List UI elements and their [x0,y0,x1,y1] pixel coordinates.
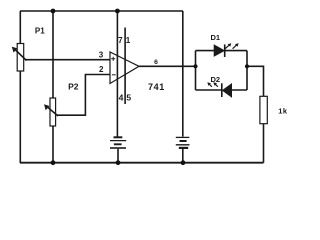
svg-text:P2: P2 [68,82,79,92]
svg-text:5: 5 [126,93,131,103]
svg-text:3: 3 [99,51,104,60]
svg-text:D2: D2 [211,75,221,84]
svg-text:6: 6 [154,59,158,66]
svg-text:1: 1 [126,36,131,45]
svg-text:741: 741 [148,82,165,92]
svg-text:2: 2 [99,65,104,74]
svg-text:4: 4 [119,93,124,103]
svg-text:D1: D1 [211,33,221,42]
svg-text:P1: P1 [35,26,45,35]
svg-text:7: 7 [118,36,123,45]
svg-text:1k: 1k [278,107,288,116]
